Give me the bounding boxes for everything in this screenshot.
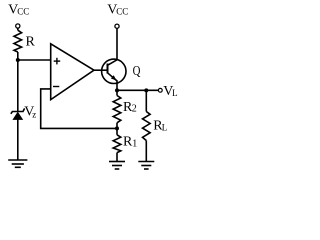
- svg-text:L: L: [172, 88, 178, 98]
- svg-text:2: 2: [132, 104, 137, 115]
- svg-text:Q: Q: [133, 64, 141, 79]
- svg-text:1: 1: [132, 138, 137, 149]
- svg-text:R: R: [26, 35, 36, 50]
- svg-text:CC: CC: [116, 7, 128, 17]
- svg-text:L: L: [162, 123, 168, 133]
- svg-text:CC: CC: [17, 7, 29, 17]
- svg-text:z: z: [32, 109, 36, 119]
